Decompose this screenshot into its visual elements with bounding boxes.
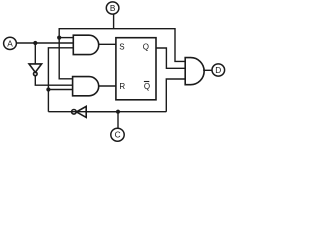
- and-gate G3 (right): [185, 58, 204, 85]
- node C circle: [111, 128, 124, 141]
- svg-text:C: C: [115, 130, 121, 140]
- wire C stem: [117, 112, 119, 128]
- svg-text:Q: Q: [143, 43, 149, 52]
- junction dot C: [116, 110, 120, 114]
- node B circle: [106, 2, 119, 14]
- node A circle: [4, 37, 17, 49]
- inverter V2 (left) triangle: [76, 106, 86, 117]
- wire B right drop to gate3: [175, 28, 185, 61]
- wire Cbar to gate2: [48, 89, 72, 91]
- inverter V1 bubble: [34, 72, 38, 76]
- latch box U1: [116, 38, 156, 100]
- wire gate3 output to D: [203, 69, 212, 71]
- svg-text:D: D: [215, 65, 221, 75]
- svg-text:A: A: [7, 39, 13, 49]
- wire A to inverter: [34, 43, 36, 64]
- wire C to gate3: [166, 79, 185, 112]
- wire gate2 output to R: [99, 85, 116, 87]
- wire top bus: [59, 28, 175, 30]
- wire inverter1 output down: [35, 76, 72, 86]
- junction dot A/inverter: [33, 41, 37, 45]
- svg-text:R: R: [119, 82, 125, 91]
- wire gate1 output to S: [99, 43, 116, 45]
- wire B stem: [113, 14, 115, 29]
- svg-text:B: B: [110, 3, 116, 13]
- and-gate G1 (top): [73, 35, 98, 54]
- inverter V2 bubble: [72, 110, 77, 115]
- wire C line: [48, 111, 166, 113]
- junction dot Cbar/gate2: [46, 87, 50, 91]
- svg-text:Q: Q: [144, 82, 150, 91]
- wire Q to gate3: [156, 48, 185, 68]
- wire B bus left drop: [59, 28, 72, 79]
- wire Cbar vertical: [48, 48, 73, 112]
- svg-text:S: S: [119, 42, 124, 51]
- junction dot B/gate1: [57, 36, 61, 40]
- wire gate1 input1 from B: [59, 37, 73, 39]
- wire A input line: [16, 42, 73, 44]
- node D circle: [212, 64, 225, 76]
- Qbar overline: [144, 81, 149, 83]
- and-gate G2 (bottom): [73, 77, 99, 96]
- inverter V1 (down) triangle: [29, 64, 42, 72]
- wire inverter2 input: [86, 111, 118, 113]
